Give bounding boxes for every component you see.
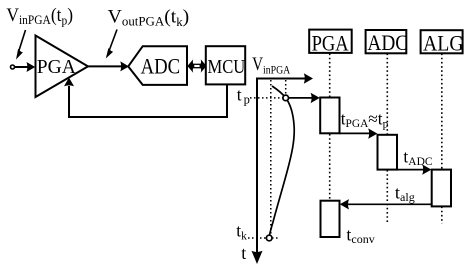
dotted tk horizontal — [248, 237, 278, 239]
ALG header box — [421, 30, 463, 53]
svg-text:MCU: MCU — [207, 56, 245, 79]
message arrow ALG to PGA (talg) — [340, 199, 432, 209]
t axis vertical arrow — [252, 78, 263, 265]
PGA lifeline — [329, 54, 331, 98]
message arrow PGA to ADC — [340, 128, 378, 138]
MCU box — [206, 46, 245, 84]
svg-text:PGA: PGA — [37, 57, 76, 78]
svg-text:PGA: PGA — [312, 32, 349, 56]
annotation arrow to input — [16, 30, 26, 60]
signal curve — [270, 86, 295, 235]
input wire with arrowhead — [15, 62, 35, 72]
dotted tp horizontal — [250, 97, 283, 99]
PGA activation box 1 — [320, 98, 339, 134]
ADC lifeline — [386, 54, 388, 135]
PGA activation box 2 (tconv) — [321, 201, 340, 237]
svg-text:ADC: ADC — [141, 55, 180, 79]
dotted value line at tk — [270, 80, 272, 235]
feedback wire MCU to PGA — [69, 84, 227, 117]
ADC chevron block — [128, 46, 187, 85]
PGA header box — [309, 30, 352, 53]
svg-text:ALG: ALG — [423, 30, 464, 55]
V axis horizontal arrow — [257, 73, 313, 83]
sample circle tp — [283, 95, 289, 101]
ALG lifeline — [441, 54, 443, 170]
op-amp PGA triangle — [36, 36, 89, 98]
svg-text:ADC: ADC — [367, 30, 408, 56]
message arrow ADC to ALG — [397, 164, 431, 174]
input terminal circle — [11, 65, 15, 69]
dotted value line at tp — [285, 80, 287, 95]
svg-text:t: t — [241, 243, 246, 263]
ADC activation box — [378, 135, 398, 170]
bidirectional arrow ADC-MCU — [187, 59, 206, 72]
ALG activation box — [432, 170, 451, 207]
message arrow sample to PGA — [289, 93, 320, 103]
output wire with arrowhead — [88, 61, 129, 71]
sample circle tk — [266, 235, 272, 241]
annotation arrow to output wire — [106, 30, 117, 59]
ADC header box — [366, 30, 407, 53]
